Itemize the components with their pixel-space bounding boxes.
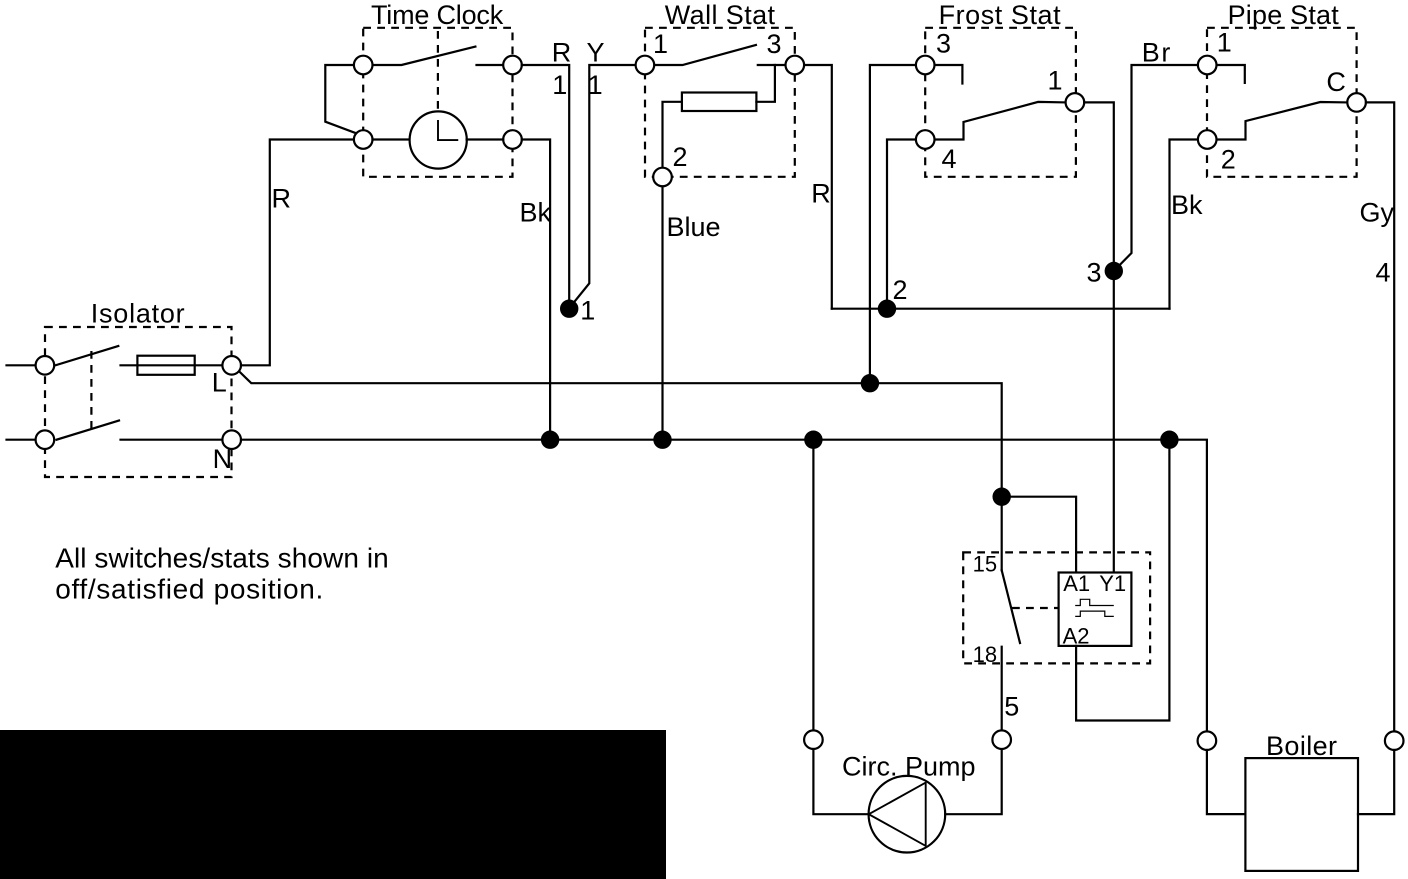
frost stat switch blade (935, 102, 1066, 140)
pipe stat enclosure box (1207, 28, 1357, 177)
svg-text:1: 1 (1217, 28, 1232, 58)
pipe stat terminal 2 (1198, 130, 1217, 149)
relay enclosure box (963, 552, 1150, 663)
svg-text:3: 3 (1087, 258, 1102, 288)
terminal L (222, 356, 241, 375)
node N / relay A2 junction (1160, 431, 1178, 449)
svg-text:Boiler: Boiler (1266, 731, 1337, 761)
time clock terminal top-left (354, 56, 373, 75)
svg-text:Frost Stat: Frost Stat (939, 0, 1062, 30)
wire relay 15 stub (1001, 497, 1003, 571)
wire Bk from pipe 2 to interconnect (1170, 140, 1198, 309)
svg-text:Y: Y (587, 38, 605, 68)
pipe stat switch blade (1217, 102, 1348, 140)
wall stat enclosure box (645, 28, 795, 177)
svg-text:C: C (1326, 67, 1346, 97)
wire Gy from pipe C to boiler (1366, 102, 1394, 731)
wire relay A2 return to N (1076, 448, 1169, 721)
boiler B1 (1198, 731, 1404, 871)
relay coil box (1059, 573, 1132, 646)
isolator enclosure box (45, 327, 232, 477)
wall stat terminal 2 (653, 168, 672, 187)
svg-text:Y1: Y1 (1099, 571, 1126, 596)
time clock actuator link (437, 31, 439, 111)
wall stat switch fixed contact (758, 64, 786, 66)
pipe stat terminal C (1347, 93, 1366, 112)
pipe stat terminal 1 (1198, 56, 1217, 75)
isolator blade L (56, 346, 119, 365)
boiler connector left (1198, 731, 1217, 750)
frost stat enclosure box (925, 28, 1076, 177)
svg-text:4: 4 (942, 144, 957, 174)
isolator SW1 (7, 299, 242, 478)
svg-text:L: L (212, 368, 227, 398)
pipe stat terminal 1 stub (1217, 65, 1245, 83)
node N / pump junction (804, 431, 822, 449)
svg-text:1: 1 (588, 70, 603, 100)
pump impeller triangle (869, 783, 926, 846)
fuse F1 (137, 356, 194, 375)
svg-text:Bk: Bk (520, 198, 552, 228)
node L bus / frost stat 3 junction (861, 374, 879, 392)
wall stat terminal 1 (636, 56, 655, 75)
svg-text:1: 1 (653, 29, 668, 59)
svg-text:Wall Stat: Wall Stat (665, 0, 776, 30)
wall stat switch blade (654, 45, 756, 65)
time clock enclosure box (363, 28, 512, 177)
wire relay A1 feed (1002, 497, 1076, 573)
wire R drop from wall stat 3 (804, 65, 832, 309)
svg-text:A1: A1 (1063, 571, 1090, 596)
wire Bk drop from time clock to N (522, 140, 550, 440)
frost stat (916, 0, 1084, 177)
frost stat terminal 3 stub (935, 65, 963, 84)
frost stat terminal 1 (1066, 93, 1085, 112)
isolator pole N terminal (36, 430, 55, 449)
wire frost 4 drop to interconnect (887, 140, 916, 309)
wire Blue drop to N (661, 186, 663, 439)
wire blade to fuse (121, 364, 223, 366)
node Br / frost 1 junction (1105, 262, 1123, 280)
svg-text:3: 3 (936, 29, 951, 59)
relay contact blade 15-18 (1002, 570, 1020, 643)
svg-text:Gy: Gy (1360, 198, 1395, 228)
svg-text:Br: Br (1142, 38, 1172, 68)
wire L bus (239, 372, 1001, 497)
svg-text:4: 4 (1376, 258, 1391, 288)
wire pump right lead (945, 749, 1002, 814)
redaction block (0, 730, 666, 879)
pump connector right (992, 730, 1011, 749)
timer relay K1 (963, 448, 1169, 731)
svg-text:Isolator: Isolator (91, 299, 186, 329)
wire boiler right lead (1358, 750, 1394, 814)
svg-text:1: 1 (580, 296, 595, 326)
node N / time clock Bk junction (541, 431, 559, 449)
boiler body (1245, 758, 1358, 871)
svg-text:R: R (552, 38, 572, 68)
svg-text:R: R (272, 184, 292, 214)
frost stat terminal 3 (916, 56, 935, 75)
svg-text:2: 2 (1221, 145, 1236, 175)
boiler connector right (1385, 731, 1404, 750)
svg-text:3: 3 (767, 29, 782, 59)
svg-text:5: 5 (1004, 692, 1019, 722)
wire frost 1 output riser (1084, 102, 1114, 572)
node N / wall stat Blue junction (653, 431, 671, 449)
svg-text:Pipe Stat: Pipe Stat (1228, 0, 1340, 30)
wire R drop from time clock (522, 65, 569, 309)
wire supply L stub (7, 364, 36, 366)
svg-text:R: R (811, 179, 831, 209)
time clock terminal bottom-left (354, 130, 373, 149)
relay timing waveform lower (1075, 611, 1114, 616)
clock motor symbol (410, 111, 467, 168)
wire N bus (241, 440, 1207, 732)
wire relay 18 drop (1001, 647, 1003, 731)
isolator blade N (57, 421, 120, 440)
wall stat anticipator resistor (682, 93, 757, 112)
svg-text:1: 1 (1048, 66, 1063, 96)
time clock switch blade (373, 47, 476, 65)
wire motor right lead (467, 138, 504, 140)
wire Y drop to wall stat (572, 65, 636, 305)
pump connector left (804, 730, 823, 749)
svg-text:Bk: Bk (1171, 190, 1203, 220)
svg-text:All switches/stats shown in: All switches/stats shown in (55, 543, 389, 574)
node interconnect / frost 4 junction (878, 300, 896, 318)
svg-text:15: 15 (973, 552, 997, 577)
svg-text:1: 1 (552, 70, 567, 100)
time clock (325, 0, 522, 177)
relay timing waveform upper (1075, 599, 1114, 605)
wire boiler left lead (1207, 750, 1246, 814)
time clock terminal top-right (503, 56, 522, 75)
pipe stat (1198, 0, 1366, 177)
isolator pole L terminal (36, 356, 55, 375)
circulating pump M1 (804, 440, 1011, 853)
wire anticipator right lead (756, 65, 775, 102)
wire pump N drop (812, 440, 814, 731)
pump body (869, 776, 946, 853)
wire frost 3 feed from L bus (870, 65, 916, 383)
wire supply N stub (7, 439, 36, 441)
node L bus / relay 15 junction (993, 488, 1011, 506)
time clock switch fixed contact (477, 64, 504, 66)
svg-text:2: 2 (673, 142, 688, 172)
wall stat (636, 0, 804, 186)
clock hands (438, 121, 457, 140)
terminal N (222, 430, 241, 449)
wire R riser (L terminal to time clock) (241, 140, 354, 366)
wire anticipator left lead (663, 102, 682, 168)
wire blade N to terminal N (121, 439, 223, 441)
svg-text:N: N (213, 444, 233, 474)
node R/Y junction (560, 300, 578, 318)
svg-text:2: 2 (893, 275, 908, 305)
wire Br from pipe 1 to frost 1 riser (1114, 65, 1198, 271)
svg-text:18: 18 (973, 642, 997, 667)
svg-text:Time Clock: Time Clock (371, 0, 504, 30)
wire pump left lead (813, 749, 868, 814)
isolator actuator link (90, 351, 92, 431)
frost stat terminal 4 (916, 130, 935, 149)
wall stat terminal 3 (786, 56, 805, 75)
svg-text:Blue: Blue (667, 212, 721, 242)
wire stat interconnect bus (832, 308, 1170, 310)
wire motor left lead (373, 138, 410, 140)
relay actuator link (1012, 607, 1058, 609)
time clock terminal bottom-right (503, 130, 522, 149)
wire time clock internal link (325, 65, 356, 133)
svg-text:off/satisfied position.: off/satisfied position. (55, 574, 324, 605)
